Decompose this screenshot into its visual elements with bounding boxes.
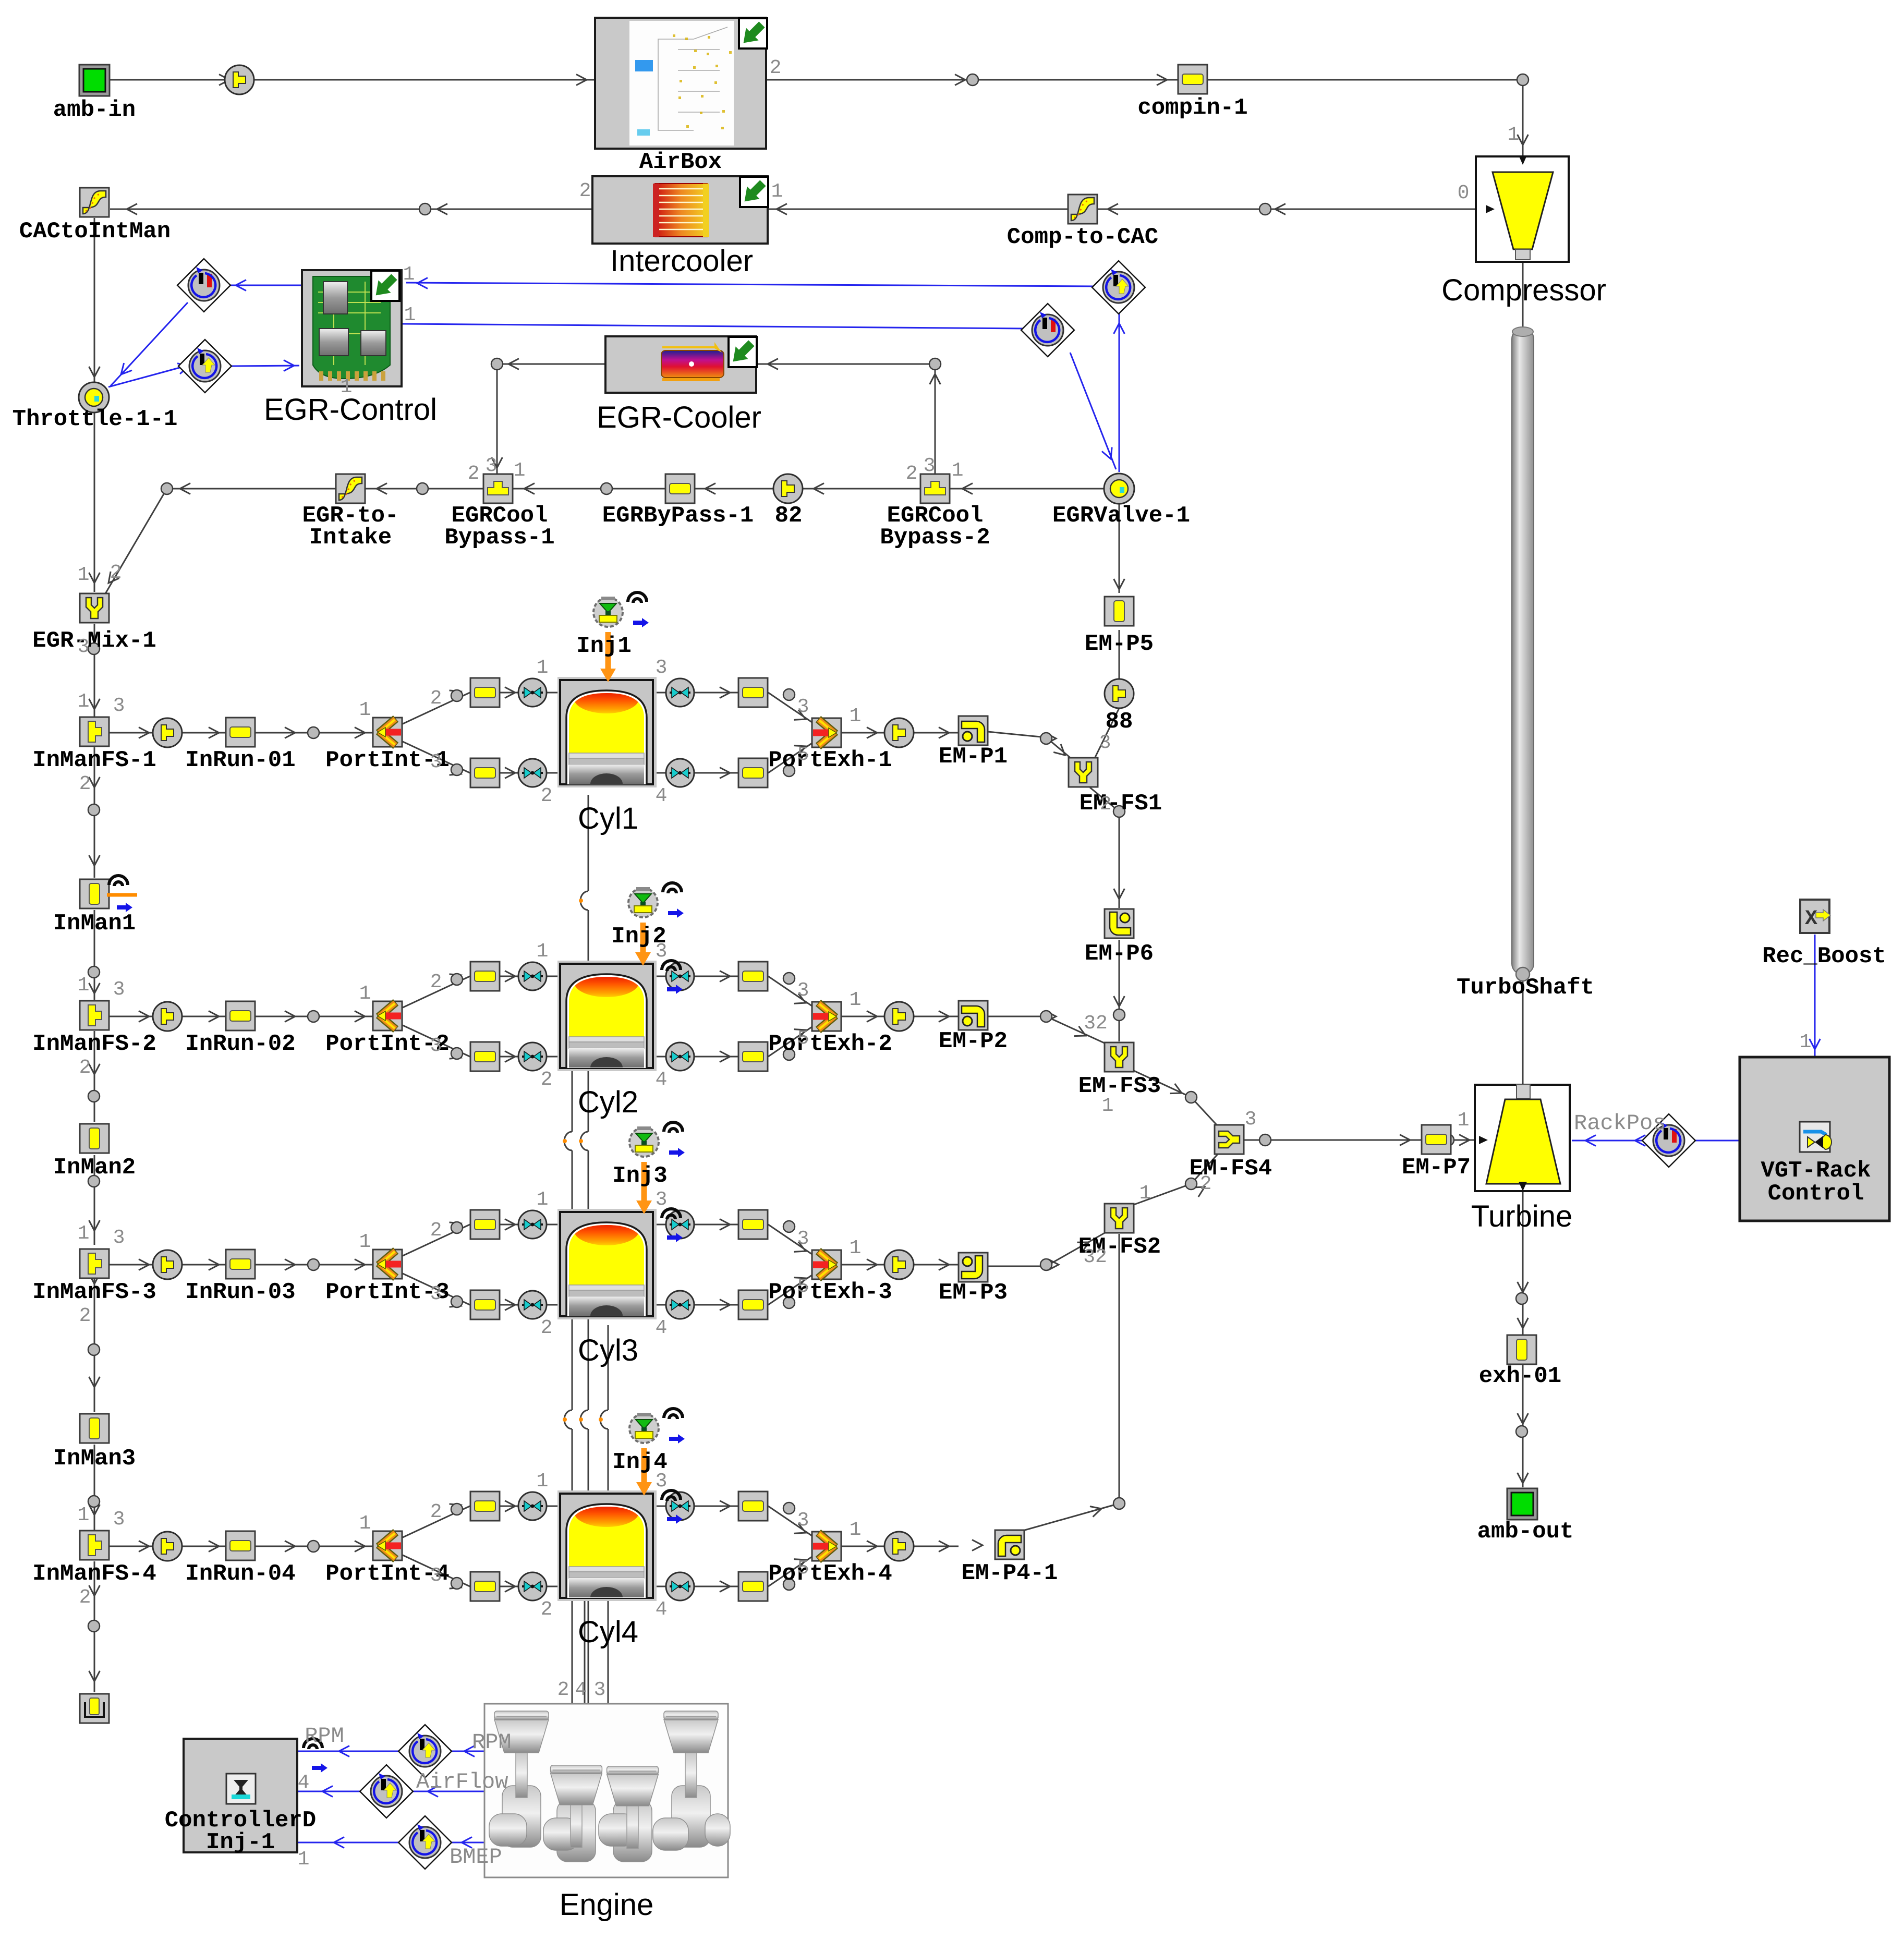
svg-text:2: 2 [579, 180, 591, 202]
svg-text:3: 3 [594, 1679, 606, 1701]
svg-text:InManFS-1: InManFS-1 [32, 747, 156, 773]
svg-text:RPM: RPM [472, 1730, 512, 1755]
svg-text:1: 1 [359, 1231, 371, 1253]
svg-text:EM-FS1: EM-FS1 [1080, 791, 1162, 817]
svg-text:1: 1 [1800, 1031, 1812, 1053]
svg-text:3: 3 [797, 696, 809, 718]
svg-text:2: 2 [79, 1586, 91, 1609]
svg-text:3: 3 [430, 1035, 442, 1057]
svg-text:EM-P3: EM-P3 [939, 1280, 1008, 1306]
svg-text:1: 1 [850, 1519, 862, 1541]
svg-text:amb-in: amb-in [53, 97, 136, 123]
svg-text:1: 1 [1458, 1109, 1470, 1132]
svg-text:InRun-04: InRun-04 [185, 1561, 295, 1587]
svg-text:3: 3 [113, 978, 125, 1001]
svg-text:2: 2 [110, 562, 122, 584]
svg-text:RackPos: RackPos [1574, 1111, 1666, 1136]
svg-text:Inj-1: Inj-1 [206, 1829, 275, 1856]
svg-text:4: 4 [656, 785, 668, 807]
svg-text:3: 3 [430, 1283, 442, 1305]
svg-text:1: 1 [537, 657, 549, 679]
svg-text:InRun-03: InRun-03 [185, 1279, 295, 1305]
svg-text:2: 2 [541, 785, 553, 807]
svg-text:InManFS-3: InManFS-3 [32, 1279, 156, 1305]
svg-text:2: 2 [770, 57, 782, 79]
svg-text:2: 2 [557, 1679, 569, 1701]
svg-text:1: 1 [850, 1237, 862, 1259]
svg-text:Cyl2: Cyl2 [578, 1085, 638, 1119]
svg-text:Throttle-1-1: Throttle-1-1 [13, 406, 178, 432]
svg-text:4: 4 [656, 1317, 668, 1339]
svg-text:exh-01: exh-01 [1479, 1363, 1561, 1389]
svg-text:Inj3: Inj3 [612, 1163, 668, 1189]
svg-text:EM-P2: EM-P2 [939, 1028, 1008, 1054]
svg-text:1: 1 [341, 376, 353, 398]
svg-text:3: 3 [486, 455, 498, 477]
svg-text:1: 1 [359, 699, 371, 721]
svg-text:5: 5 [797, 744, 809, 766]
svg-text:amb-out: amb-out [1477, 1519, 1574, 1545]
svg-text:BMEP: BMEP [450, 1845, 502, 1870]
svg-text:EM-P1: EM-P1 [939, 744, 1008, 770]
svg-text:3: 3 [656, 940, 668, 963]
svg-text:Bypass-1: Bypass-1 [444, 525, 554, 551]
svg-text:1: 1 [298, 1848, 310, 1871]
svg-text:3: 3 [78, 636, 90, 658]
svg-text:4: 4 [575, 1679, 587, 1701]
svg-text:1: 1 [404, 304, 416, 326]
svg-text:PortExh-3: PortExh-3 [768, 1279, 892, 1305]
svg-text:EM-FS3: EM-FS3 [1078, 1073, 1161, 1099]
svg-text:2: 2 [79, 1305, 91, 1327]
svg-text:4: 4 [298, 1772, 310, 1794]
svg-text:2: 2 [79, 1057, 91, 1079]
svg-text:3: 3 [656, 657, 668, 679]
svg-text:compin-1: compin-1 [1137, 95, 1247, 121]
svg-text:1: 1 [78, 690, 90, 713]
svg-text:InManFS-2: InManFS-2 [32, 1031, 156, 1057]
svg-text:InRun-02: InRun-02 [185, 1031, 295, 1057]
svg-text:5: 5 [797, 1557, 809, 1580]
svg-text:Turbine: Turbine [1471, 1199, 1573, 1233]
svg-text:AirBox: AirBox [639, 149, 722, 175]
svg-text:2: 2 [468, 463, 480, 485]
svg-text:3: 3 [113, 1508, 125, 1531]
svg-text:3: 3 [797, 1509, 809, 1532]
svg-text:Compressor: Compressor [1441, 273, 1606, 307]
svg-text:1: 1 [537, 1189, 549, 1211]
svg-text:RPM: RPM [305, 1724, 344, 1749]
svg-text:Inj1: Inj1 [576, 633, 632, 659]
svg-text:PortExh-1: PortExh-1 [768, 747, 892, 773]
svg-text:2: 2 [541, 1317, 553, 1339]
svg-text:2: 2 [541, 1598, 553, 1621]
svg-text:Cyl1: Cyl1 [578, 802, 638, 835]
svg-text:1: 1 [850, 705, 862, 727]
svg-text:InManFS-4: InManFS-4 [32, 1561, 156, 1587]
svg-text:Control: Control [1768, 1181, 1864, 1207]
svg-text:Comp-to-CAC: Comp-to-CAC [1007, 224, 1158, 250]
svg-text:InMan1: InMan1 [53, 911, 136, 937]
svg-text:EGR-Cooler: EGR-Cooler [597, 401, 761, 434]
svg-text:1: 1 [78, 1504, 90, 1526]
svg-text:EM-P7: EM-P7 [1402, 1155, 1471, 1181]
svg-text:2: 2 [430, 687, 442, 710]
svg-text:3: 3 [113, 695, 125, 717]
svg-text:Engine: Engine [560, 1888, 654, 1922]
svg-text:2: 2 [1100, 793, 1112, 816]
svg-text:1: 1 [1508, 124, 1520, 146]
svg-text:1: 1 [359, 1512, 371, 1535]
svg-text:3: 3 [1245, 1108, 1257, 1131]
svg-text:4: 4 [656, 1598, 668, 1621]
svg-text:2: 2 [906, 463, 918, 485]
svg-text:EM-P6: EM-P6 [1085, 941, 1154, 967]
svg-text:3: 3 [924, 455, 936, 477]
svg-text:TurboShaft: TurboShaft [1457, 975, 1594, 1001]
svg-text:3: 3 [797, 979, 809, 1002]
svg-text:3: 3 [430, 1565, 442, 1587]
svg-text:32: 32 [1084, 1012, 1108, 1035]
svg-text:2: 2 [1200, 1173, 1212, 1195]
svg-text:1: 1 [537, 1470, 549, 1493]
svg-text:3: 3 [430, 751, 442, 773]
svg-text:CACtoIntMan: CACtoIntMan [19, 219, 171, 245]
svg-text:4: 4 [656, 1069, 668, 1091]
svg-text:PortExh-4: PortExh-4 [768, 1561, 892, 1587]
svg-text:1: 1 [78, 564, 90, 586]
svg-text:Rec_Boost: Rec_Boost [1762, 943, 1886, 969]
svg-text:2: 2 [541, 1069, 553, 1091]
svg-text:1: 1 [850, 989, 862, 1011]
svg-text:2: 2 [430, 1219, 442, 1242]
svg-text:1: 1 [359, 983, 371, 1005]
svg-text:1: 1 [952, 459, 964, 482]
svg-text:Cyl3: Cyl3 [578, 1333, 638, 1367]
svg-text:AirFlow: AirFlow [416, 1769, 508, 1794]
svg-text:32: 32 [1083, 1246, 1107, 1268]
svg-text:InRun-01: InRun-01 [185, 747, 295, 773]
svg-text:1: 1 [78, 1222, 90, 1245]
svg-text:1: 1 [514, 459, 526, 482]
svg-text:Intake: Intake [309, 525, 392, 551]
svg-text:5: 5 [797, 1027, 809, 1050]
svg-text:3: 3 [1099, 732, 1111, 754]
svg-text:PortExh-2: PortExh-2 [768, 1031, 892, 1057]
svg-text:3: 3 [656, 1470, 668, 1493]
svg-text:1: 1 [537, 940, 549, 963]
svg-text:Cyl4: Cyl4 [578, 1615, 638, 1649]
svg-text:88: 88 [1106, 709, 1133, 735]
svg-text:Intercooler: Intercooler [610, 244, 753, 278]
svg-text:EGRByPass-1: EGRByPass-1 [602, 503, 754, 529]
svg-text:1: 1 [403, 263, 415, 286]
svg-text:EGRValve-1: EGRValve-1 [1052, 503, 1190, 529]
svg-text:1: 1 [1139, 1182, 1151, 1205]
svg-text:2: 2 [79, 773, 91, 795]
svg-text:VGT-Rack: VGT-Rack [1761, 1158, 1871, 1184]
svg-text:1: 1 [771, 180, 783, 203]
svg-text:EGR-Mix-1: EGR-Mix-1 [32, 628, 156, 654]
svg-text:3: 3 [797, 1228, 809, 1250]
svg-text:InMan2: InMan2 [53, 1155, 136, 1181]
svg-text:3: 3 [113, 1227, 125, 1249]
svg-text:Bypass-2: Bypass-2 [880, 525, 990, 551]
svg-text:82: 82 [775, 503, 803, 529]
svg-text:3: 3 [656, 1189, 668, 1211]
svg-text:EM-P5: EM-P5 [1085, 631, 1154, 657]
svg-text:0: 0 [1458, 182, 1470, 204]
svg-text:2: 2 [430, 971, 442, 993]
svg-text:X: X [1805, 907, 1817, 931]
svg-text:1: 1 [1102, 1095, 1114, 1117]
svg-text:5: 5 [797, 1276, 809, 1298]
svg-text:EM-P4-1: EM-P4-1 [962, 1560, 1058, 1586]
svg-text:1: 1 [78, 974, 90, 997]
svg-text:InMan3: InMan3 [53, 1446, 136, 1472]
svg-text:2: 2 [430, 1501, 442, 1523]
